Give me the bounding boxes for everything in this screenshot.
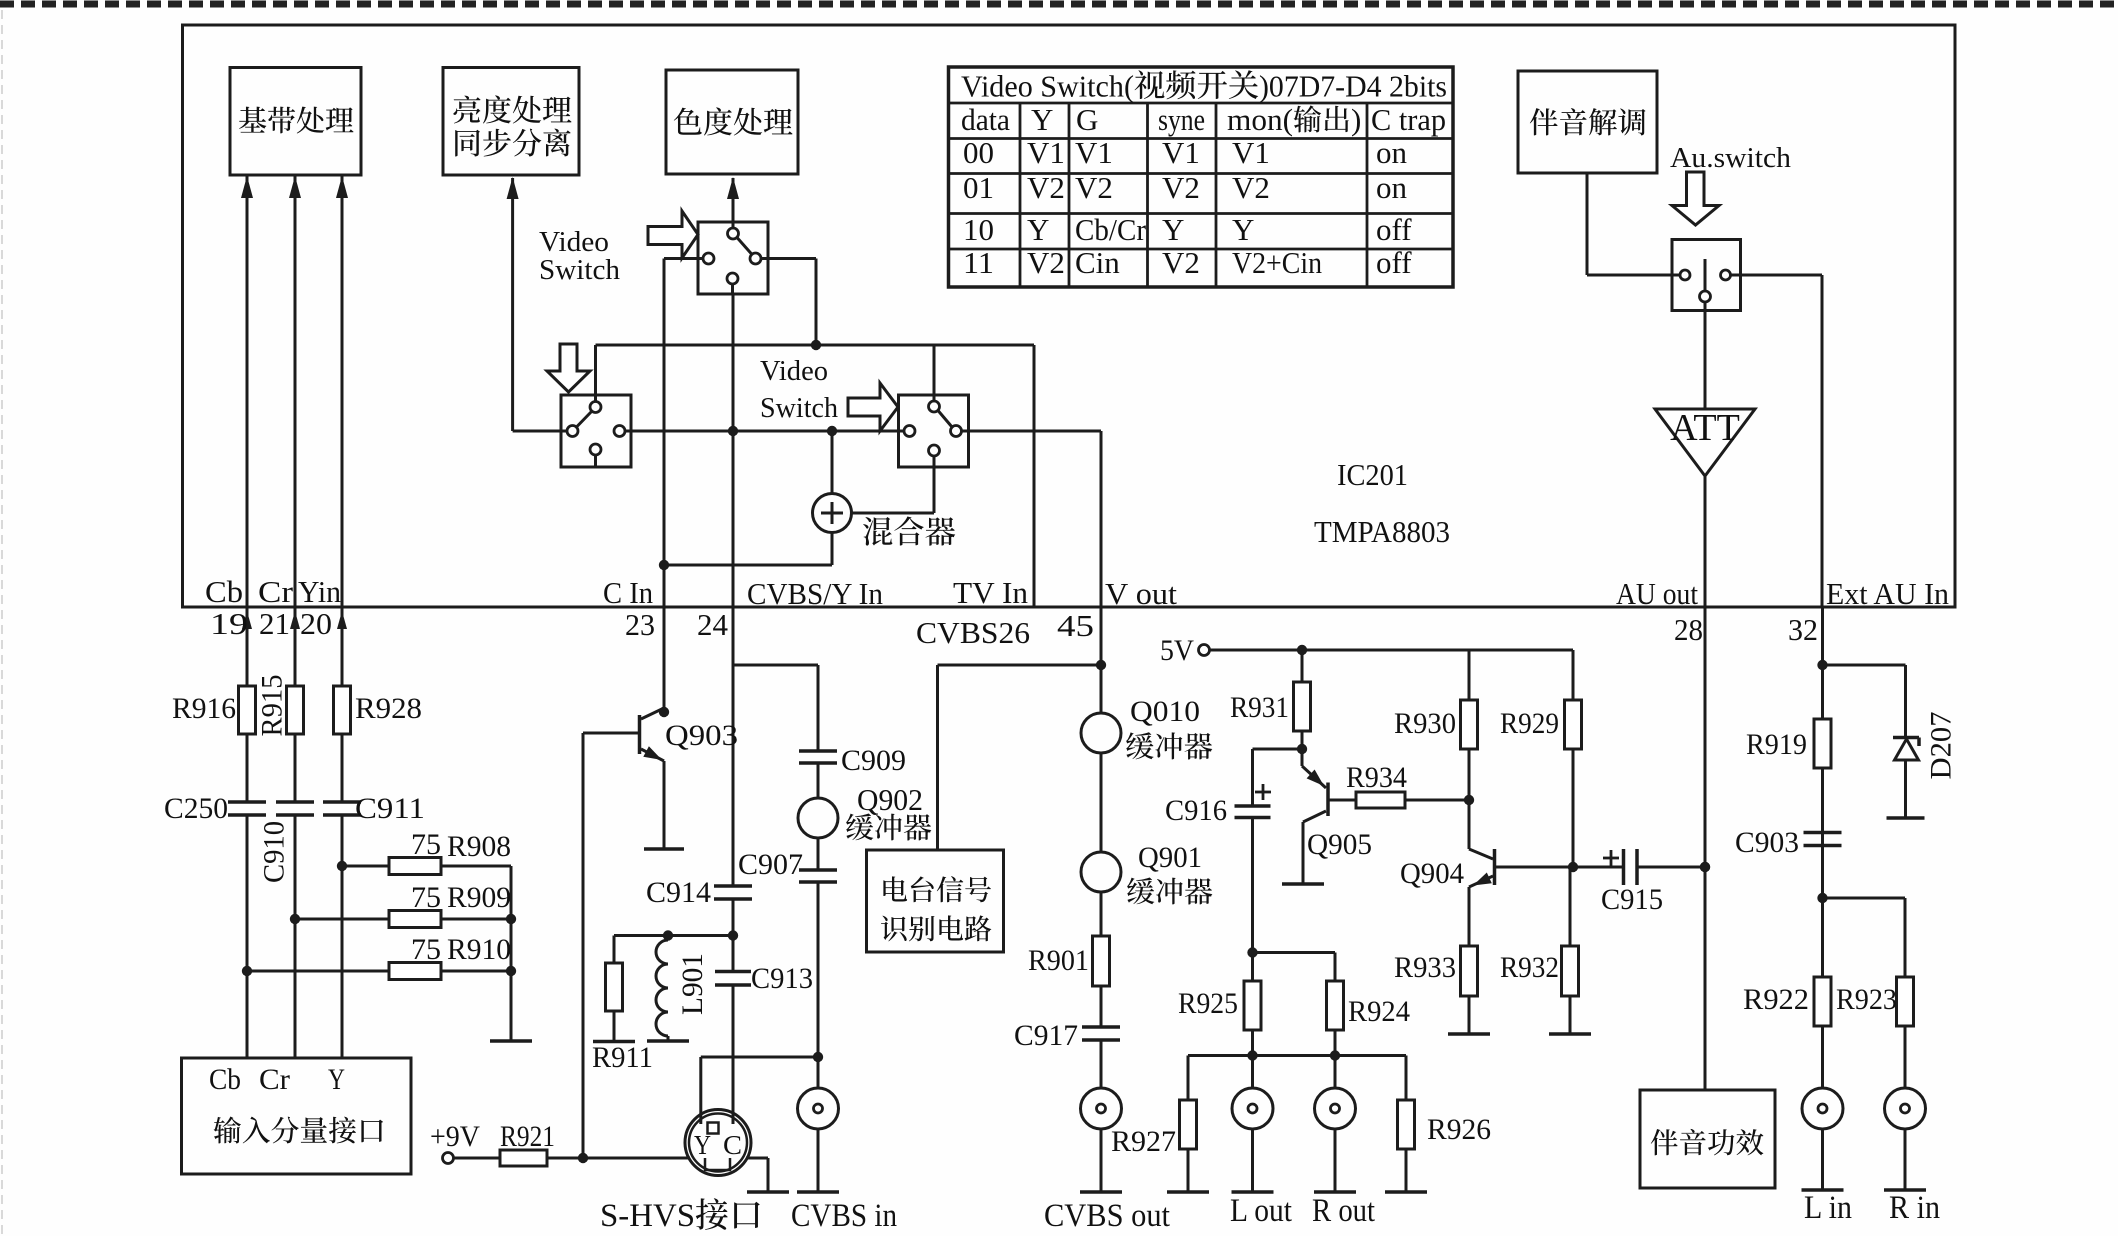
svg-text:28: 28: [1674, 612, 1703, 647]
svg-text:ATT: ATT: [1670, 407, 1740, 449]
svg-text:L in: L in: [1804, 1190, 1852, 1226]
svg-text:Q901: Q901: [1138, 841, 1202, 874]
svg-text:R924: R924: [1348, 995, 1410, 1028]
svg-text:V1: V1: [1027, 135, 1065, 170]
svg-text:V1: V1: [1162, 135, 1200, 170]
svg-text:V2: V2: [1162, 170, 1200, 205]
svg-text:V out: V out: [1105, 576, 1177, 611]
svg-text:75: 75: [411, 828, 441, 861]
svg-text:01: 01: [963, 170, 994, 205]
svg-text:Y: Y: [328, 1063, 345, 1096]
svg-text:R911: R911: [592, 1041, 653, 1074]
svg-text:CVBS26: CVBS26: [916, 615, 1030, 650]
svg-text:R928: R928: [355, 692, 422, 725]
svg-text:on: on: [1376, 170, 1408, 205]
svg-text:C In: C In: [603, 575, 653, 610]
svg-text:L out: L out: [1230, 1193, 1292, 1229]
svg-text:24: 24: [697, 607, 729, 642]
svg-text:Cin: Cin: [1075, 245, 1120, 280]
svg-text:Switch: Switch: [539, 254, 620, 286]
svg-text:11: 11: [963, 245, 994, 280]
svg-text:Q903: Q903: [665, 719, 738, 752]
svg-text:off: off: [1376, 212, 1412, 247]
svg-text:00: 00: [963, 135, 994, 170]
svg-text:Cr: Cr: [259, 1063, 290, 1096]
svg-text:AU out: AU out: [1616, 576, 1698, 611]
svg-text:20: 20: [300, 606, 332, 641]
svg-text:C914: C914: [646, 876, 711, 909]
svg-text:Y: Y: [1031, 102, 1053, 137]
svg-text:): ): [1351, 102, 1361, 137]
svg-text:32: 32: [1788, 612, 1818, 647]
svg-text:Video Switch(: Video Switch(: [961, 69, 1134, 104]
svg-text:R925: R925: [1178, 987, 1238, 1020]
svg-text:75: 75: [411, 933, 441, 966]
svg-text:CVBS in: CVBS in: [791, 1198, 897, 1234]
svg-text:R out: R out: [1312, 1193, 1375, 1229]
svg-text:C916: C916: [1165, 794, 1227, 827]
svg-text:C903: C903: [1735, 826, 1799, 859]
svg-text:C911: C911: [355, 792, 425, 825]
svg-text:L901: L901: [676, 953, 709, 1015]
svg-text:TV In: TV In: [953, 575, 1028, 610]
svg-text:C913: C913: [751, 962, 813, 995]
svg-text:C917: C917: [1014, 1019, 1078, 1052]
svg-text:on: on: [1376, 135, 1408, 170]
svg-text:Switch: Switch: [760, 393, 838, 424]
svg-text:R922: R922: [1743, 983, 1809, 1016]
svg-text:R934: R934: [1346, 761, 1407, 794]
svg-text:mon(: mon(: [1227, 102, 1293, 137]
svg-text:R908: R908: [447, 830, 511, 863]
svg-text:S-HVS: S-HVS: [600, 1198, 695, 1234]
svg-text:CVBS/Y In: CVBS/Y In: [747, 576, 883, 611]
svg-text:19: 19: [210, 606, 248, 641]
svg-text:R931: R931: [1230, 691, 1289, 724]
svg-text:R916: R916: [172, 692, 236, 725]
svg-text:D207: D207: [1925, 712, 1958, 780]
svg-text:+9V: +9V: [430, 1120, 480, 1153]
svg-text:Cb: Cb: [209, 1063, 241, 1096]
svg-text:IC201: IC201: [1337, 457, 1408, 492]
svg-text:V2: V2: [1027, 245, 1065, 280]
svg-text:10: 10: [963, 212, 994, 247]
svg-text:V2+Cin: V2+Cin: [1232, 245, 1322, 280]
svg-text:Yin: Yin: [298, 574, 341, 609]
svg-text:75: 75: [411, 881, 441, 914]
svg-text:R927: R927: [1111, 1125, 1176, 1158]
svg-text:R926: R926: [1427, 1113, 1491, 1146]
svg-text:Y: Y: [1027, 212, 1049, 247]
svg-text:V1: V1: [1075, 135, 1113, 170]
svg-text:R901: R901: [1028, 944, 1089, 977]
svg-text:V2: V2: [1162, 245, 1200, 280]
svg-text:off: off: [1376, 245, 1412, 280]
svg-text:G: G: [1076, 102, 1098, 137]
svg-text:R933: R933: [1394, 951, 1456, 984]
svg-text:C909: C909: [841, 744, 906, 777]
svg-text:Cb: Cb: [205, 574, 243, 609]
svg-text:Q010: Q010: [1130, 695, 1200, 728]
svg-text:R909: R909: [447, 881, 511, 914]
svg-text:C trap: C trap: [1371, 102, 1446, 137]
svg-text:data: data: [961, 102, 1010, 137]
svg-text:Cb/Cr: Cb/Cr: [1075, 212, 1147, 247]
svg-text:R929: R929: [1500, 707, 1559, 740]
svg-text:R910: R910: [447, 933, 511, 966]
svg-text:CVBS out: CVBS out: [1044, 1198, 1170, 1234]
svg-text:syne: syne: [1158, 102, 1205, 137]
svg-text:R930: R930: [1394, 707, 1456, 740]
svg-text:R923: R923: [1836, 983, 1897, 1016]
svg-text:Cr: Cr: [258, 574, 294, 609]
svg-text:TMPA8803: TMPA8803: [1314, 514, 1450, 549]
svg-text:R932: R932: [1500, 951, 1559, 984]
svg-text:Ext AU In: Ext AU In: [1826, 576, 1949, 611]
svg-text:Q904: Q904: [1400, 857, 1464, 890]
svg-text:V2: V2: [1232, 170, 1270, 205]
svg-text:C910: C910: [258, 821, 291, 883]
svg-text:V2: V2: [1027, 170, 1065, 205]
svg-text:R921: R921: [500, 1120, 555, 1153]
svg-text:23: 23: [625, 607, 655, 642]
svg-text:Y: Y: [1232, 212, 1254, 247]
svg-text:R in: R in: [1889, 1190, 1940, 1226]
svg-text:C907: C907: [738, 848, 803, 881]
svg-text:Au.switch: Au.switch: [1670, 142, 1791, 174]
svg-text:Y: Y: [1162, 212, 1184, 247]
svg-text:21: 21: [259, 606, 290, 641]
svg-text:Video: Video: [760, 356, 828, 387]
svg-text:5V: 5V: [1160, 634, 1194, 667]
svg-text:C250: C250: [164, 792, 228, 825]
svg-text:)07D7-D4 2bits: )07D7-D4 2bits: [1259, 69, 1447, 104]
svg-text:R919: R919: [1746, 728, 1807, 761]
svg-text:45: 45: [1057, 608, 1094, 643]
svg-text:R915: R915: [256, 675, 289, 737]
svg-text:C: C: [723, 1130, 742, 1160]
svg-text:Q902: Q902: [857, 782, 923, 817]
svg-text:Q905: Q905: [1307, 828, 1372, 861]
svg-text:C915: C915: [1601, 883, 1663, 916]
svg-text:V2: V2: [1075, 170, 1113, 205]
svg-text:V1: V1: [1232, 135, 1270, 170]
